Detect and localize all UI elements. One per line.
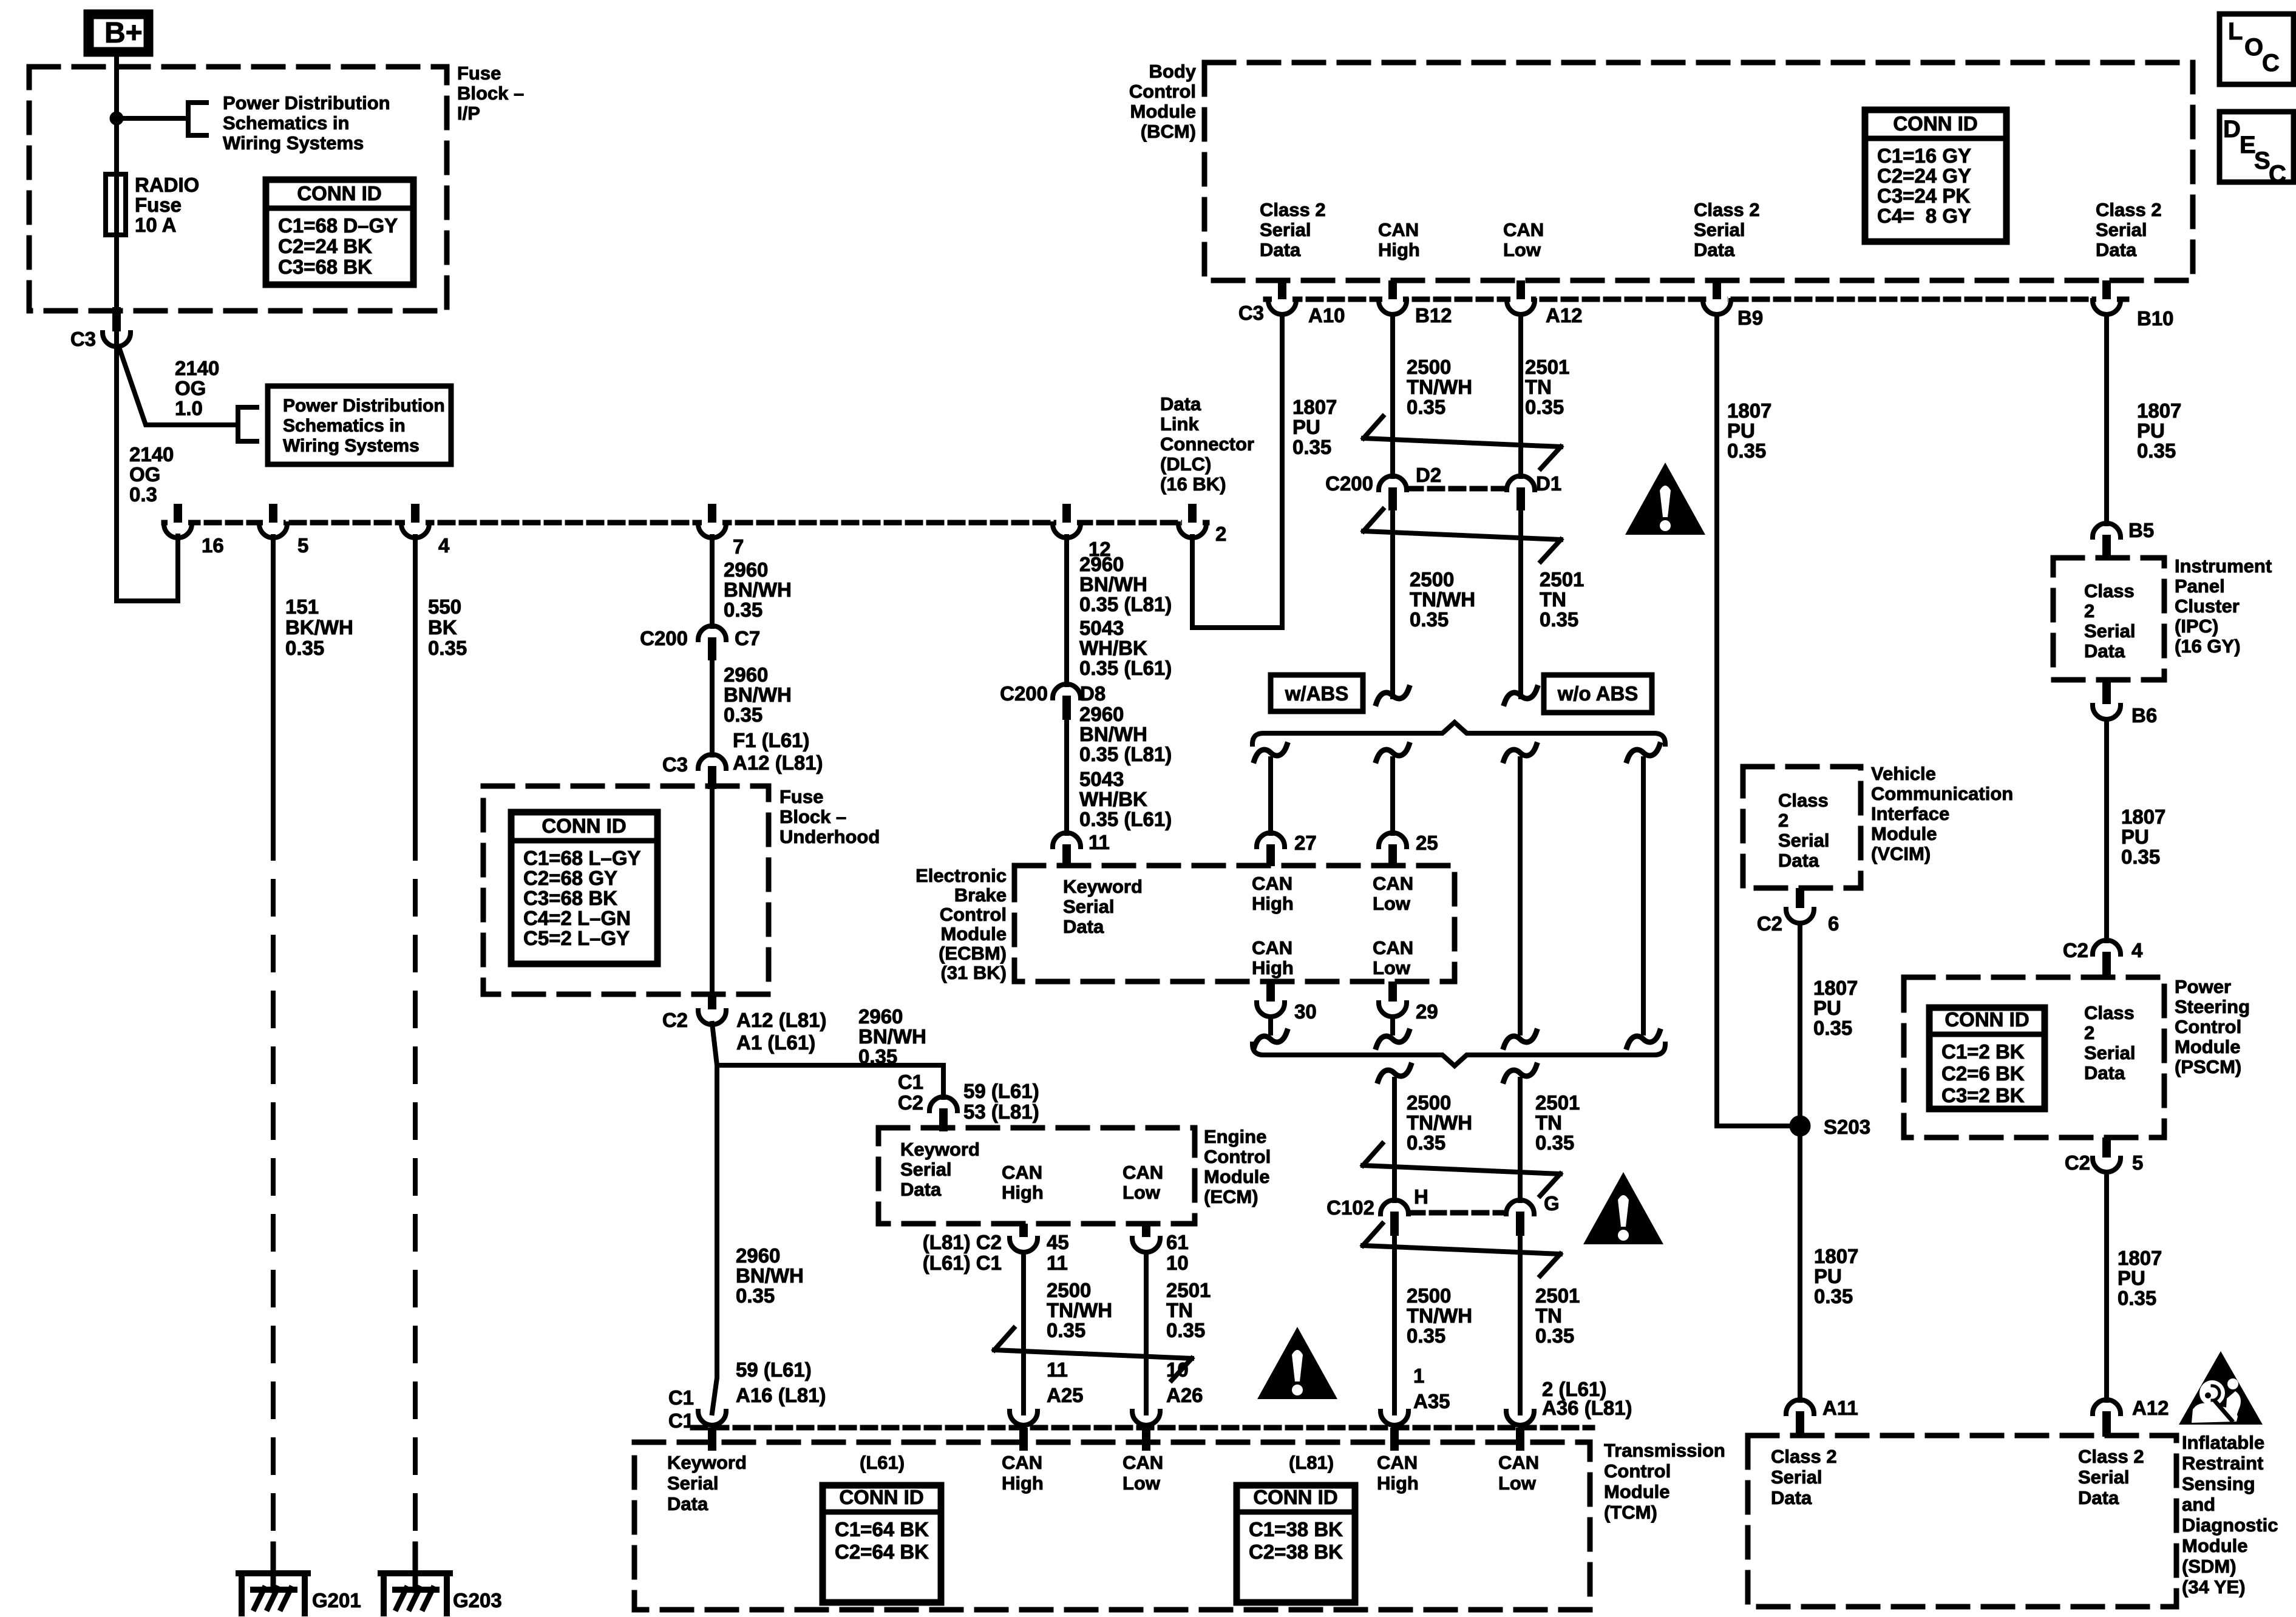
ECM dashed box: [878, 1128, 1195, 1224]
svg-text:4: 4: [438, 534, 450, 557]
svg-text:2: 2: [1215, 523, 1226, 545]
svg-text:CAN: CAN: [1377, 1452, 1418, 1473]
svg-text:C2: C2: [2065, 1151, 2090, 1174]
connector C200 D8: [1053, 684, 1081, 698]
connector PSCM C2 5: [2102, 1137, 2111, 1158]
w/o ABS box: [1544, 675, 1652, 713]
svg-text:A11: A11: [1822, 1397, 1858, 1419]
svg-text:11: 11: [1089, 831, 1110, 853]
svg-text:(IPC): (IPC): [2175, 615, 2218, 637]
svg-text:Vehicle: Vehicle: [1871, 763, 1936, 784]
svg-text:D2: D2: [1416, 464, 1441, 486]
svg-text:RADIO: RADIO: [135, 174, 199, 196]
svg-text:(SDM): (SDM): [2182, 1556, 2237, 1577]
svg-text:C4=2 L–GN: C4=2 L–GN: [523, 907, 631, 929]
svg-text:Serial: Serial: [2078, 1466, 2129, 1488]
svg-text:C: C: [2262, 50, 2280, 76]
svg-text:A16 (L81): A16 (L81): [736, 1384, 826, 1406]
CONN ID table PSCM: [1929, 1008, 2045, 1109]
svg-text:C200: C200: [1325, 472, 1373, 495]
DLC pin 2: [1182, 519, 1203, 527]
svg-text:CAN: CAN: [1252, 937, 1292, 958]
twisted pair crossover 1: [1364, 416, 1383, 438]
ground G201: [271, 1544, 276, 1590]
svg-text:2501: 2501: [1525, 356, 1569, 378]
warning triangle 1: [1625, 463, 1705, 535]
svg-text:Low: Low: [1123, 1473, 1161, 1494]
svg-text:0.35: 0.35: [1407, 396, 1445, 418]
svg-text:2960: 2960: [1079, 553, 1124, 575]
wire branch to ECM C1/C2: [717, 1065, 943, 1097]
svg-text:C1: C1: [898, 1071, 923, 1093]
svg-text:(TCM): (TCM): [1604, 1502, 1657, 1523]
svg-text:(L61): (L61): [860, 1452, 905, 1473]
svg-text:0.35 (L61): 0.35 (L61): [1079, 808, 1172, 830]
TCM pin C1: [698, 1411, 726, 1425]
BCM pin B12: [1382, 296, 1403, 303]
svg-text:C3: C3: [1238, 302, 1264, 324]
svg-text:Low: Low: [1498, 1473, 1537, 1494]
svg-text:H: H: [1414, 1185, 1428, 1208]
svg-text:Link: Link: [1160, 413, 1199, 435]
svg-text:11: 11: [1047, 1252, 1068, 1274]
svg-text:C2=38 BK: C2=38 BK: [1249, 1541, 1343, 1563]
svg-text:OG: OG: [175, 377, 206, 399]
svg-text:Serial: Serial: [900, 1159, 951, 1180]
svg-text:Transmission: Transmission: [1604, 1440, 1725, 1461]
svg-text:C1=68 D–GY: C1=68 D–GY: [278, 214, 398, 237]
svg-text:CAN: CAN: [1123, 1162, 1163, 1183]
svg-text:Serial: Serial: [2096, 219, 2147, 240]
svg-text:5043: 5043: [1079, 617, 1124, 639]
wire ECM CAN High to TCM A25: [1021, 1252, 1026, 1413]
svg-text:Class: Class: [1778, 790, 1829, 811]
DLC pin 4: [405, 519, 426, 527]
svg-text:0.35: 0.35: [1535, 1131, 1574, 1154]
svg-text:Block –: Block –: [457, 83, 524, 104]
svg-text:Data: Data: [900, 1179, 942, 1200]
ECM C1/C2 connector: [929, 1097, 957, 1111]
svg-text:C1=64 BK: C1=64 BK: [835, 1518, 929, 1541]
TCM dashed box: [634, 1442, 1590, 1610]
svg-text:29: 29: [1416, 1000, 1438, 1023]
svg-text:Fuse: Fuse: [457, 63, 501, 84]
svg-text:2960: 2960: [858, 1005, 903, 1028]
ECM pin CAN High: [1019, 1224, 1028, 1237]
svg-text:Serial: Serial: [1771, 1466, 1822, 1488]
C200 dashed link D2-D1: [1408, 486, 1505, 492]
svg-text:A12: A12: [2132, 1397, 2169, 1419]
ECM pin CAN Low: [1142, 1224, 1150, 1237]
connector SDM A11: [1786, 1400, 1814, 1414]
svg-text:B5: B5: [2128, 519, 2154, 541]
svg-text:Low: Low: [1373, 893, 1411, 914]
svg-text:Communication: Communication: [1871, 783, 2013, 804]
connector C2 fuse block underhood: [708, 994, 716, 1009]
svg-text:A25: A25: [1047, 1384, 1084, 1406]
svg-text:Body: Body: [1149, 61, 1197, 82]
svg-text:C2=68 GY: C2=68 GY: [523, 867, 617, 889]
svg-text:2500: 2500: [1407, 356, 1451, 378]
svg-text:PU: PU: [2121, 825, 2149, 848]
svg-text:BN/WH: BN/WH: [1079, 573, 1147, 595]
TCM pin A36: [1506, 1411, 1534, 1425]
svg-text:TN: TN: [1535, 1304, 1562, 1327]
svg-text:TN: TN: [1540, 588, 1566, 611]
fuse block underhood dashed box: [483, 786, 769, 994]
svg-text:Class 2: Class 2: [1771, 1446, 1837, 1467]
svg-text:TN/WH: TN/WH: [1407, 376, 1472, 398]
svg-text:and: and: [2182, 1494, 2215, 1515]
twisted pair crossover 5: [994, 1328, 1014, 1350]
connector C200 D1: [1507, 476, 1535, 490]
svg-text:WH/BK: WH/BK: [1079, 788, 1147, 810]
svg-text:C2: C2: [2063, 939, 2088, 961]
connector C200 D2: [1379, 476, 1407, 490]
svg-text:1807: 1807: [1814, 1245, 1858, 1267]
svg-text:0.35: 0.35: [1813, 1017, 1852, 1039]
svg-text:0.35: 0.35: [428, 637, 467, 659]
svg-text:0.35: 0.35: [858, 1045, 897, 1068]
svg-text:CAN: CAN: [1373, 873, 1413, 894]
svg-text:B9: B9: [1737, 307, 1763, 329]
svg-text:C4= 8 GY: C4= 8 GY: [1877, 205, 1971, 227]
svg-text:CAN: CAN: [1378, 219, 1419, 240]
svg-text:A10: A10: [1308, 304, 1345, 327]
svg-text:Serial: Serial: [1694, 219, 1745, 240]
svg-text:CAN: CAN: [1252, 873, 1292, 894]
svg-text:0.35: 0.35: [2137, 439, 2176, 462]
svg-text:Wiring Systems: Wiring Systems: [223, 132, 364, 154]
svg-text:BK/WH: BK/WH: [285, 616, 353, 639]
wire DLC pin12 to C200 D8: [1064, 537, 1069, 685]
svg-text:Instrument: Instrument: [2175, 555, 2272, 577]
connector C102 H: [1381, 1200, 1408, 1214]
svg-text:Restraint: Restraint: [2182, 1453, 2263, 1474]
svg-text:B6: B6: [2131, 704, 2157, 727]
svg-text:CAN: CAN: [1503, 219, 1544, 240]
svg-text:A12: A12: [1546, 304, 1583, 327]
svg-text:C2=24 GY: C2=24 GY: [1877, 164, 1971, 187]
twisted pair crossover 4: [1363, 1224, 1382, 1246]
airbag warning triangle SDM: [2179, 1351, 2263, 1425]
svg-text:C2=64 BK: C2=64 BK: [835, 1541, 929, 1563]
svg-text:(PSCM): (PSCM): [2175, 1056, 2241, 1077]
connector ECBM pin 29: [1388, 981, 1397, 1002]
svg-text:Class: Class: [2084, 1002, 2135, 1023]
wire G to TCM A36: [1518, 1224, 1523, 1413]
svg-text:Serial: Serial: [2084, 1042, 2135, 1063]
svg-text:A26: A26: [1166, 1384, 1203, 1406]
svg-text:PU: PU: [2137, 419, 2165, 442]
svg-text:59 (L61): 59 (L61): [963, 1080, 1039, 1102]
svg-text:7: 7: [733, 535, 744, 558]
svg-text:BN/WH: BN/WH: [736, 1264, 804, 1287]
svg-text:CONN ID: CONN ID: [1944, 1008, 2029, 1031]
svg-text:(31 BK): (31 BK): [940, 962, 1007, 983]
svg-text:Data: Data: [2078, 1487, 2119, 1508]
svg-text:C1=16 GY: C1=16 GY: [1877, 144, 1971, 167]
svg-text:25: 25: [1416, 832, 1438, 854]
svg-text:Keyword: Keyword: [1063, 876, 1143, 897]
svg-text:Data: Data: [2084, 1062, 2125, 1083]
svg-text:E: E: [2240, 132, 2256, 158]
BCM connector face line: [1266, 297, 2127, 302]
connector C102 G: [1506, 1200, 1534, 1214]
svg-text:C7: C7: [735, 627, 760, 649]
connector ECBM pin 11: [1053, 833, 1081, 847]
svg-text:(16 BK): (16 BK): [1160, 473, 1226, 495]
svg-text:Control: Control: [2175, 1016, 2241, 1037]
wire DLC pin7 to C200 C7: [710, 537, 715, 626]
svg-text:2: 2: [2084, 1022, 2094, 1043]
SDM dashed box: [1748, 1436, 2176, 1607]
svg-text:Low: Low: [1123, 1182, 1161, 1203]
svg-text:1807: 1807: [1292, 396, 1337, 418]
connector C3 fuse block underhood: [698, 754, 726, 768]
svg-text:(BCM): (BCM): [1141, 121, 1196, 142]
svg-text:(ECBM): (ECBM): [939, 943, 1007, 964]
svg-text:0.35: 0.35: [724, 703, 763, 726]
svg-text:Control: Control: [940, 904, 1007, 925]
wire BCM B10 down to B5: [2104, 314, 2109, 524]
DLC pin 16: [168, 519, 188, 527]
TCM pin A35: [1381, 1411, 1408, 1425]
svg-text:151: 151: [285, 595, 319, 618]
svg-text:10: 10: [1166, 1358, 1189, 1381]
svg-text:0.35: 0.35: [1814, 1285, 1853, 1307]
wire VCIM to SDM A11: [1798, 923, 1802, 1400]
wire D8 to ECBM pin 11: [1064, 720, 1069, 833]
fuse RADIO 10A: [106, 174, 126, 235]
svg-text:0.35 (L61): 0.35 (L61): [1079, 657, 1172, 679]
junction dot: [110, 112, 123, 125]
IPC dashed box: [2053, 558, 2164, 680]
wire B6 to C2 4: [2104, 719, 2109, 941]
connector B5: [2093, 523, 2121, 537]
BCM pin B9: [1707, 296, 1727, 303]
svg-text:C5=2 L–GY: C5=2 L–GY: [523, 927, 630, 949]
wire C7 to C3 underhood: [710, 660, 715, 755]
svg-text:C3=24 PK: C3=24 PK: [1877, 185, 1970, 207]
connector C3 fuse block I/P: [112, 307, 121, 331]
svg-text:BK: BK: [428, 616, 457, 639]
svg-text:TN/WH: TN/WH: [1407, 1304, 1472, 1327]
TCM pin A25: [1010, 1411, 1038, 1425]
svg-text:0.35: 0.35: [2118, 1287, 2156, 1309]
svg-text:0.35: 0.35: [1540, 608, 1578, 631]
svg-text:5043: 5043: [1079, 768, 1124, 790]
svg-text:TN: TN: [1166, 1299, 1193, 1321]
svg-text:F1 (L61): F1 (L61): [733, 729, 810, 751]
svg-text:0.35: 0.35: [2121, 846, 2160, 868]
svg-text:CAN: CAN: [1002, 1162, 1042, 1183]
svg-text:Power Distribution: Power Distribution: [283, 396, 445, 416]
svg-text:Keyword: Keyword: [667, 1452, 747, 1473]
svg-text:Underhood: Underhood: [779, 826, 880, 847]
svg-text:27: 27: [1294, 832, 1317, 854]
svg-text:Class 2: Class 2: [1694, 199, 1760, 220]
svg-text:0.35: 0.35: [1407, 1131, 1445, 1154]
svg-text:Steering: Steering: [2175, 996, 2250, 1017]
svg-text:59 (L61): 59 (L61): [736, 1358, 812, 1381]
svg-text:(L81): (L81): [1289, 1452, 1334, 1473]
wire H to TCM A35: [1392, 1224, 1397, 1413]
svg-text:A12 (L81): A12 (L81): [736, 1009, 827, 1031]
svg-text:Panel: Panel: [2175, 575, 2225, 597]
svg-text:Serial: Serial: [1063, 896, 1114, 917]
svg-text:Power: Power: [2175, 976, 2231, 997]
svg-text:G203: G203: [453, 1589, 502, 1612]
brace wire 2 to ECBM 25: [1376, 745, 1409, 761]
svg-text:0.35: 0.35: [1407, 1324, 1445, 1347]
svg-text:BN/WH: BN/WH: [1079, 723, 1147, 745]
svg-text:Module: Module: [2175, 1036, 2241, 1057]
DLC connector face line: [164, 520, 1207, 526]
TCM connector face line: [693, 1425, 1592, 1431]
wire D1 down to woABS end: [1518, 510, 1523, 697]
C102 dashed link H-G: [1410, 1210, 1504, 1216]
svg-text:10: 10: [1166, 1252, 1189, 1274]
svg-text:Low: Low: [1503, 239, 1541, 260]
brace top: [1252, 722, 1665, 744]
svg-text:D: D: [2223, 116, 2241, 143]
svg-text:2960: 2960: [724, 663, 768, 686]
svg-text:2501: 2501: [1535, 1284, 1580, 1307]
svg-text:C2: C2: [1757, 912, 1782, 935]
brace bottom: [1252, 1044, 1665, 1066]
svg-text:Diagnostic: Diagnostic: [2182, 1514, 2278, 1536]
svg-text:2500: 2500: [1047, 1279, 1091, 1301]
svg-text:Fuse: Fuse: [135, 194, 182, 216]
svg-text:PU: PU: [1813, 997, 1841, 1019]
wire 550 BK dashed to G203: [413, 825, 418, 1551]
wire C2 5 to SDM A12: [2104, 1172, 2109, 1400]
twisted pair crossover 2: [1364, 509, 1383, 531]
svg-text:Data: Data: [1160, 393, 1201, 415]
BCM dashed box: [1204, 63, 2193, 280]
connector ECBM pin 25: [1379, 833, 1407, 847]
svg-text:0.35: 0.35: [736, 1284, 775, 1307]
svg-text:Connector: Connector: [1160, 433, 1254, 455]
ground G203: [413, 1544, 418, 1590]
svg-text:5: 5: [2132, 1151, 2143, 1174]
svg-text:w/o ABS: w/o ABS: [1557, 682, 1639, 705]
svg-text:B+: B+: [104, 17, 143, 49]
wire brace to C102 G: [1504, 1065, 1537, 1081]
brace wire 4: [1627, 745, 1660, 761]
svg-text:C2=24 BK: C2=24 BK: [278, 235, 372, 257]
svg-text:C: C: [2269, 161, 2286, 188]
w/ABS box: [1271, 675, 1363, 711]
svg-text:Class 2: Class 2: [1260, 199, 1326, 220]
connector B6: [2102, 680, 2111, 704]
svg-text:A1 (L61): A1 (L61): [736, 1031, 815, 1054]
connector C200 C7: [698, 626, 726, 640]
svg-text:C200: C200: [640, 627, 688, 649]
svg-text:Block –: Block –: [779, 806, 846, 827]
VCIM dashed box: [1743, 767, 1861, 888]
wire through underhood box: [710, 788, 715, 994]
svg-text:1807: 1807: [2121, 805, 2165, 828]
CONN ID table fuse block I/P: [266, 180, 413, 285]
VCIM pin C2 6: [1796, 888, 1804, 908]
svg-text:Serial: Serial: [2084, 620, 2135, 642]
wire BCM B9 down to S203: [1717, 314, 1790, 1126]
svg-text:Keyword: Keyword: [900, 1139, 980, 1160]
connector ECBM pin 30: [1266, 981, 1275, 1002]
svg-text:C2=6 BK: C2=6 BK: [1941, 1062, 2025, 1085]
svg-text:L: L: [2228, 18, 2243, 45]
CONN ID table TCM L61: [823, 1485, 941, 1602]
svg-text:61: 61: [1166, 1231, 1189, 1253]
wire C3 diagonal to power distribution ref: [119, 347, 238, 425]
svg-text:A12 (L81): A12 (L81): [733, 751, 823, 774]
svg-text:0.35: 0.35: [1525, 396, 1564, 418]
BCM pin B10: [2096, 296, 2117, 303]
svg-text:Control: Control: [1204, 1146, 1271, 1167]
LOC box: [2220, 14, 2294, 84]
svg-text:Electronic: Electronic: [915, 865, 1007, 886]
svg-text:C1=68 L–GY: C1=68 L–GY: [523, 847, 641, 869]
svg-text:C3: C3: [70, 328, 96, 350]
svg-text:Module: Module: [1204, 1166, 1270, 1187]
svg-text:1807: 1807: [1813, 977, 1858, 999]
svg-text:Data: Data: [2096, 239, 2137, 260]
svg-text:Class 2: Class 2: [2078, 1446, 2144, 1467]
bracket power distribution ref 2: [238, 407, 257, 441]
svg-text:O: O: [2244, 34, 2263, 61]
svg-text:C2: C2: [898, 1091, 923, 1114]
svg-text:(34 YE): (34 YE): [2182, 1576, 2246, 1598]
svg-text:Class: Class: [2084, 580, 2135, 602]
DLC pin 12: [1056, 519, 1077, 527]
wire branch to power distribution ref: [117, 116, 188, 121]
svg-text:CAN: CAN: [1498, 1452, 1539, 1473]
svg-text:(L81) C2: (L81) C2: [923, 1231, 1002, 1253]
svg-text:Low: Low: [1373, 957, 1411, 978]
bracket power distribution ref: [188, 103, 206, 135]
svg-text:Engine: Engine: [1204, 1126, 1266, 1147]
svg-text:High: High: [1252, 893, 1294, 914]
svg-text:CONN ID: CONN ID: [297, 182, 381, 205]
wire C2 down to TCM C1: [712, 1023, 717, 1413]
svg-text:(16 GY): (16 GY): [2175, 636, 2241, 657]
svg-text:4: 4: [2131, 939, 2143, 961]
splice S203: [1790, 1116, 1810, 1136]
svg-text:Wiring Systems: Wiring Systems: [283, 436, 419, 456]
svg-text:53 (L81): 53 (L81): [963, 1100, 1039, 1123]
svg-text:TN: TN: [1535, 1111, 1562, 1134]
svg-text:30: 30: [1294, 1000, 1317, 1023]
svg-text:D1: D1: [1536, 472, 1561, 495]
PSCM dashed box: [1904, 977, 2164, 1137]
svg-text:Module: Module: [2182, 1535, 2248, 1556]
svg-text:2501: 2501: [1166, 1279, 1211, 1301]
svg-text:TN/WH: TN/WH: [1410, 588, 1475, 611]
svg-text:45: 45: [1047, 1231, 1069, 1253]
svg-text:2: 2: [1778, 810, 1788, 831]
svg-text:CONN ID: CONN ID: [542, 815, 626, 837]
svg-text:0.35: 0.35: [1292, 436, 1331, 458]
wire D2 down to wABS end: [1390, 510, 1395, 697]
svg-text:(VCIM): (VCIM): [1871, 843, 1931, 864]
wire ECM CAN Low to TCM A26: [1144, 1252, 1149, 1413]
svg-text:C3=68 BK: C3=68 BK: [523, 887, 617, 909]
svg-text:Control: Control: [1604, 1460, 1671, 1482]
connector ECBM pin 27: [1257, 833, 1285, 847]
svg-text:Sensing: Sensing: [2182, 1473, 2255, 1494]
